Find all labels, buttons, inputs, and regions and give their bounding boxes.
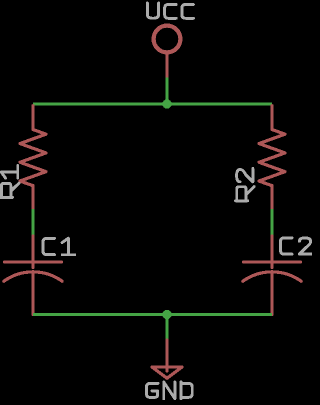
resistor R1 — [20, 106, 46, 209]
label R2 — [236, 168, 255, 200]
label GND — [146, 382, 192, 399]
wire: top bus — [33, 103, 272, 106]
wire: bottom bus — [33, 313, 272, 316]
wire: bottom bus to GND — [166, 315, 169, 341]
label C2 — [280, 238, 311, 254]
junction: top node — [162, 99, 171, 108]
capacitor C1 — [4, 236, 62, 315]
label C1 — [43, 238, 75, 255]
wire: VCC pin to top bus — [166, 78, 169, 105]
wire: R1 to C1 — [32, 209, 35, 236]
power VCC symbol — [153, 25, 181, 77]
resistor R2 — [259, 106, 285, 209]
power GND symbol — [152, 340, 182, 378]
label R1 — [0, 166, 19, 198]
wire: R2 to C2 — [271, 209, 274, 236]
label VCC — [147, 3, 193, 18]
capacitor C2 — [243, 236, 301, 315]
junction: bottom node — [162, 310, 171, 319]
